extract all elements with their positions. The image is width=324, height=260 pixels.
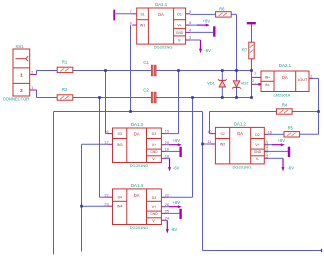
ground at DA1.4 <box>166 209 181 219</box>
vertical part label AD7510 <box>264 141 269 159</box>
-6V at DA1.1 <box>190 40 211 53</box>
svg-text:DA1.1: DA1.1 <box>155 2 168 7</box>
svg-text:22: 22 <box>165 193 169 197</box>
svg-text:9: 9 <box>189 10 191 14</box>
-6V at DA1.4 <box>166 220 178 233</box>
svg-text:1: 1 <box>254 72 256 76</box>
wire S3 branch <box>106 71 109 134</box>
analog switch DA1.3 <box>104 122 169 168</box>
svg-text:DG201NG: DG201NG <box>154 45 173 50</box>
svg-text:-6V: -6V <box>288 165 295 170</box>
svg-text:4: 4 <box>189 29 191 33</box>
svg-text:23: 23 <box>104 202 108 206</box>
svg-text:DA: DA <box>237 131 243 136</box>
svg-text:IN1: IN1 <box>140 24 146 28</box>
svg-text:S3: S3 <box>117 132 121 136</box>
svg-text:XS1: XS1 <box>15 44 24 49</box>
svg-text:DG201NG: DG201NG <box>233 165 252 170</box>
svg-text:GND: GND <box>150 150 158 154</box>
svg-text:V+: V+ <box>152 205 157 209</box>
svg-text:+6V: +6V <box>278 138 286 143</box>
wire OUT to R5/R4 <box>269 78 319 134</box>
svg-text:DG201NG: DG201NG <box>130 225 149 230</box>
svg-text:6: 6 <box>130 21 132 25</box>
svg-text:CONNECTOR: CONNECTOR <box>3 97 30 102</box>
svg-text:DA1.3: DA1.3 <box>131 122 144 127</box>
svg-text:R2: R2 <box>62 87 68 92</box>
svg-text:2: 2 <box>252 79 254 83</box>
svg-text:D2: D2 <box>255 133 260 137</box>
svg-text:1OUT: 1OUT <box>297 78 308 82</box>
capacitor C2 <box>143 87 156 103</box>
diode VD1 <box>207 79 227 87</box>
svg-text:10: 10 <box>207 130 211 134</box>
svg-text:18: 18 <box>165 154 169 158</box>
svg-text:-6V: -6V <box>173 166 180 171</box>
analog switch DA1.4 <box>104 183 169 230</box>
svg-text:V-: V- <box>178 39 182 43</box>
svg-text:15: 15 <box>165 130 169 134</box>
wire D1 to R6 <box>190 14 236 70</box>
svg-text:R4: R4 <box>282 102 288 107</box>
svg-text:DA1.4: DA1.4 <box>131 183 144 188</box>
svg-text:DG201NG: DG201NG <box>130 163 149 168</box>
analog switch DA1.1 <box>130 2 191 50</box>
-6V at DA1.2 <box>269 158 294 171</box>
svg-text:DA: DA <box>134 131 140 136</box>
+6V at DA1.4 <box>166 200 182 208</box>
ground at DA1.3 <box>166 147 181 157</box>
svg-text:2: 2 <box>310 75 312 79</box>
svg-text:-6V: -6V <box>171 227 178 232</box>
+6V at DA1.1 <box>190 19 210 27</box>
svg-text:DA: DA <box>282 75 288 80</box>
svg-text:IN+: IN+ <box>265 76 271 80</box>
terminal bar at S1 <box>114 10 132 21</box>
wire IN3/IN4 branch <box>82 144 109 251</box>
svg-text:V-: V- <box>152 157 156 161</box>
ground at DA1.2 <box>269 147 289 157</box>
analog switch DA1.2 <box>207 122 272 170</box>
wire D4 branch <box>166 98 193 198</box>
wire net A (R1/C1 top bus y=70.5) <box>30 71 252 75</box>
wire IN2 branch <box>203 143 212 145</box>
wire net B (R2/C2 bottom bus y=97.5) <box>30 90 252 98</box>
svg-text:2: 2 <box>20 88 23 93</box>
wire S2 to R4 <box>210 112 319 134</box>
svg-text:V-: V- <box>256 157 260 161</box>
svg-text:R6: R6 <box>219 7 225 12</box>
svg-text:D4: D4 <box>152 196 157 200</box>
svg-text:1: 1 <box>31 86 33 90</box>
+6V at DA1.2 <box>269 138 285 146</box>
svg-text:VD2: VD2 <box>241 81 250 86</box>
svg-text:R7: R7 <box>242 48 248 53</box>
node dots net A <box>104 69 253 72</box>
svg-text:VD1: VD1 <box>207 81 216 86</box>
resistor R1 <box>57 59 73 72</box>
resistor R7 <box>242 42 254 59</box>
wire R7 column <box>251 24 253 70</box>
+6V at DA1.3 <box>166 138 182 146</box>
svg-text:S4: S4 <box>117 196 121 200</box>
svg-text:24: 24 <box>165 216 169 220</box>
svg-text:IN4: IN4 <box>117 205 123 209</box>
svg-text:V-: V- <box>152 219 156 223</box>
svg-text:D3: D3 <box>152 132 157 136</box>
svg-text:R1: R1 <box>62 59 68 64</box>
svg-text:11: 11 <box>207 140 211 144</box>
node dots other <box>80 110 320 207</box>
svg-text:DA: DA <box>134 193 140 198</box>
svg-text:AD7510DI: AD7510DI <box>264 141 269 159</box>
node dots net B <box>98 96 253 99</box>
svg-text:IN3: IN3 <box>117 143 123 147</box>
svg-text:S2: S2 <box>220 132 224 136</box>
svg-text:22: 22 <box>104 193 108 197</box>
svg-text:S1: S1 <box>140 12 144 16</box>
resistor R4 <box>277 102 293 114</box>
svg-text:V+: V+ <box>177 24 182 28</box>
svg-text:2: 2 <box>31 71 33 75</box>
svg-text:17: 17 <box>104 141 108 145</box>
svg-text:IN2: IN2 <box>220 143 226 147</box>
capacitor C1 <box>143 60 156 76</box>
svg-text:GND: GND <box>150 212 158 216</box>
svg-text:-6V: -6V <box>204 48 211 53</box>
comparator DA2.1 <box>261 63 313 97</box>
svg-text:DA2.1: DA2.1 <box>279 63 292 68</box>
-6V at DA1.3 <box>166 158 180 171</box>
wire VD1 vertical <box>221 71 223 98</box>
svg-text:C1: C1 <box>143 60 149 65</box>
svg-text:R5: R5 <box>288 126 294 131</box>
diode VD2 <box>232 81 249 89</box>
svg-text:GND: GND <box>254 150 262 154</box>
wire comparator input jogs <box>252 71 262 98</box>
ground at DA1.1 <box>190 26 214 36</box>
svg-text:DA: DA <box>158 12 164 17</box>
svg-text:DA1.2: DA1.2 <box>234 122 247 127</box>
resistor R5 <box>284 126 300 138</box>
svg-text:V+: V+ <box>152 143 157 147</box>
svg-text:+6V: +6V <box>173 138 181 143</box>
wire D3 branch <box>166 71 179 134</box>
wire IN1 bus (y=111.5) <box>54 25 322 254</box>
svg-text:16: 16 <box>268 130 272 134</box>
svg-text:16: 16 <box>104 130 108 134</box>
wire S4 branch <box>100 98 109 198</box>
connector XS1 <box>3 44 34 102</box>
svg-text:GND: GND <box>176 31 184 35</box>
wire VD2 vertical <box>236 71 238 98</box>
ground for R7 <box>247 22 256 24</box>
svg-text:V+: V+ <box>255 143 260 147</box>
svg-text:LM2901A: LM2901A <box>273 92 290 97</box>
svg-text:C2: C2 <box>143 87 149 92</box>
resistor R2 <box>57 87 73 100</box>
resistor R6 <box>216 7 232 18</box>
svg-text:1: 1 <box>20 72 23 77</box>
svg-text:IN-: IN- <box>265 83 271 87</box>
svg-text:D1: D1 <box>177 12 182 16</box>
svg-text:+6V: +6V <box>173 200 181 205</box>
svg-text:+6V: +6V <box>203 19 211 24</box>
